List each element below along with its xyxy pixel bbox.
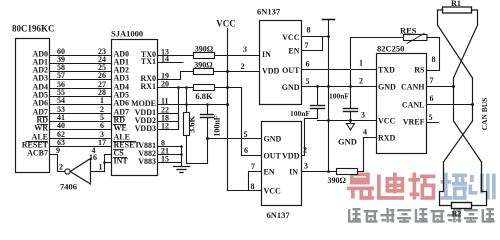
svg-text:VCC: VCC — [216, 19, 236, 29]
wire RESET from 80C196KC to SJA1000 — [50, 146, 112, 148]
wire CS/INT common vertical — [104, 155, 106, 172]
junction VDD wire / VCC rail — [226, 70, 229, 73]
junction CANH/bus — [452, 85, 455, 88]
ground symbol open triangle — [350, 121, 352, 124]
svg-text:26: 26 — [98, 71, 106, 80]
junction INT node — [103, 161, 106, 164]
wire AD1 from 80C196KC to SJA1000 — [50, 63, 112, 65]
svg-text:VCC: VCC — [282, 33, 300, 42]
capacitor C1 100nF top lead — [207, 105, 209, 115]
wire 3.6K bottom U-route to ground node — [187, 136, 208, 164]
svg-text:ACB7: ACB7 — [27, 149, 48, 158]
wire RX0 to resistor R2a — [158, 72, 194, 80]
svg-text:VREF: VREF — [403, 118, 425, 127]
svg-text:100nF: 100nF — [329, 92, 349, 101]
microcontroller U1 80C196KC box — [16, 39, 50, 173]
capacitor C1 100nF bottom lead — [207, 118, 209, 139]
svg-text:VCC: VCC — [264, 187, 282, 196]
resistor R3a 6.8K — [194, 85, 215, 91]
wire TX1 stub — [158, 62, 184, 64]
wire ground net to lower opto GND — [208, 138, 262, 140]
svg-text:390Ω: 390Ω — [328, 176, 347, 185]
resistor R4a 3.6K vertical — [184, 113, 190, 136]
svg-text:6.8K: 6.8K — [195, 91, 213, 101]
wire bus left conductor — [453, 78, 455, 121]
wire RES vertical to GND wire — [350, 38, 352, 87]
wire 82C250 VCC row — [318, 120, 377, 122]
wire U6 EN bracket to VCC — [249, 172, 262, 191]
wire bus twist X1 — [438, 25, 473, 78]
resistor R2a 390ohm — [194, 69, 214, 75]
svg-text:390Ω: 390Ω — [194, 61, 213, 70]
svg-text:CAN BUS: CAN BUS — [480, 98, 489, 131]
capacitor C2 100nF top lead — [317, 87, 319, 106]
wire CANH to bus — [427, 86, 454, 88]
resistor R1 terminator — [443, 7, 472, 13]
svg-text:GND: GND — [282, 83, 300, 92]
svg-text:GND: GND — [264, 135, 282, 144]
wire U4 pin 8 to rail — [302, 36, 329, 38]
svg-text:IN: IN — [262, 50, 271, 59]
svg-text:5: 5 — [306, 77, 310, 86]
junction MODE/VCC rail — [226, 103, 229, 106]
svg-text:7: 7 — [305, 41, 309, 50]
wire CS stub — [105, 154, 112, 156]
CAN transceiver U5 82C250 box — [377, 54, 427, 154]
svg-text:80C196KC: 80C196KC — [12, 24, 55, 34]
capacitor C3 100nF top lead — [350, 87, 352, 109]
capacitor C3 bottom lead — [350, 112, 352, 121]
wire RX1 down to lower opto OUT — [241, 88, 243, 156]
svg-text:6: 6 — [100, 121, 104, 130]
wire VSS2 stub — [158, 154, 182, 156]
resistor R2 terminator — [452, 203, 472, 209]
svg-text:17: 17 — [98, 138, 106, 147]
svg-text:6: 6 — [244, 146, 248, 155]
svg-text:V883: V883 — [138, 157, 156, 166]
svg-text:MODE: MODE — [131, 99, 156, 108]
wire VDD1 stub — [158, 113, 179, 115]
junction MODE/divider — [185, 103, 188, 106]
junction CANL/bus — [471, 103, 474, 106]
svg-text:2: 2 — [241, 62, 245, 71]
svg-text:6: 6 — [430, 94, 434, 103]
svg-text:VDD3: VDD3 — [135, 124, 156, 133]
wire CANL to bus — [427, 104, 473, 106]
svg-text:2: 2 — [303, 146, 307, 155]
junction RX1/VCC rail — [226, 86, 229, 89]
junction VCC row / C3 — [349, 119, 352, 122]
wire bus left conductor lower — [440, 162, 452, 206]
wire U4 GND to 82C250 GND — [302, 86, 377, 88]
junction GND/C2 — [316, 85, 319, 88]
resistor R5 RES slope-control box — [404, 35, 428, 41]
wire VCC rail vertical — [227, 29, 229, 191]
svg-text:3: 3 — [304, 162, 308, 171]
svg-text:RES: RES — [400, 26, 417, 36]
wire lower opto IN to resistor R6 — [302, 171, 337, 173]
ground symbol SJA1000 VSS — [174, 166, 190, 168]
wire AD4 from 80C196KC to SJA1000 — [50, 88, 112, 90]
svg-text:AD3: AD3 — [114, 74, 130, 83]
capacitor C1 100nF plates — [201, 114, 214, 116]
svg-text:AD3: AD3 — [32, 74, 48, 83]
svg-text:OUT: OUT — [264, 152, 282, 161]
wire R1 right lead — [472, 10, 478, 25]
wire R1 left lead — [438, 10, 443, 25]
svg-text:16: 16 — [89, 153, 97, 162]
inverter U2 7406 triangle — [70, 159, 90, 185]
junction RX1/VDD bus — [177, 86, 180, 89]
svg-text:57: 57 — [57, 71, 65, 80]
junction VSS2 — [180, 153, 183, 156]
svg-text:SJA1000: SJA1000 — [111, 29, 143, 39]
svg-text:CANH: CANH — [401, 83, 425, 92]
wire U4 OUT to 82C250 TXD — [302, 69, 377, 71]
wire TX0 to opto IN — [158, 55, 260, 57]
svg-text:AD6: AD6 — [114, 99, 130, 108]
svg-text:7: 7 — [251, 162, 255, 171]
junction VSS1 — [180, 145, 183, 148]
wire AD2 from 80C196KC to SJA1000 — [50, 71, 112, 73]
junction VCC row / rail x328 — [327, 119, 330, 122]
svg-text:2: 2 — [359, 77, 363, 86]
wire ALE from 80C196KC to SJA1000 — [50, 138, 112, 140]
wire VSS1 stub — [158, 146, 182, 148]
wire VSS bus vertical — [181, 147, 183, 167]
svg-text:VDD: VDD — [262, 67, 280, 76]
svg-text:40: 40 — [57, 121, 65, 130]
wire ACB7 from 80C196KC pin 9 to 7406 output — [50, 155, 65, 172]
svg-text:3: 3 — [361, 111, 365, 120]
svg-text:3: 3 — [243, 45, 247, 54]
capacitor C3 100nF plates — [344, 108, 358, 110]
svg-text:5: 5 — [429, 113, 433, 122]
svg-text:RXD: RXD — [378, 134, 396, 143]
svg-text:9: 9 — [56, 146, 60, 155]
wire U4 pin 7 bracket — [302, 37, 323, 51]
svg-text:8: 8 — [307, 26, 311, 35]
resistor R6 390ohm — [337, 169, 358, 175]
svg-text:VCC: VCC — [378, 117, 396, 126]
wire bus right conductor lower — [472, 162, 487, 206]
optocoupler U4 6N137 upper box — [260, 21, 302, 105]
wire RX1 row — [158, 87, 194, 89]
junction GND/RES vertical — [349, 85, 352, 88]
wire VSS3 stub — [158, 162, 182, 164]
wire VDD bus vertical — [178, 88, 180, 130]
svg-text:100nF: 100nF — [213, 115, 222, 136]
wire AD3 from 80C196KC to SJA1000 — [50, 79, 112, 81]
wire long vertical rail x328 — [328, 20, 330, 172]
svg-text:TX1: TX1 — [141, 57, 156, 66]
junction U4 pin 8 — [327, 35, 330, 38]
RES adjustment stroke — [407, 34, 424, 44]
svg-text:4: 4 — [363, 128, 367, 137]
svg-text:82C250: 82C250 — [377, 44, 404, 54]
optocoupler U6 6N137 lower box — [262, 122, 302, 206]
junction C1/3.6K/GND wire — [206, 137, 209, 140]
wire divider vertical — [186, 88, 188, 113]
junction MODE/cap C1 — [206, 103, 209, 106]
svg-text:AD6: AD6 — [32, 99, 48, 108]
capacitor C2 bottom route to lower opto VDD — [302, 109, 318, 156]
wire RS pin loop — [427, 38, 440, 71]
wire bus right conductor — [472, 78, 474, 121]
svg-text:CANL: CANL — [402, 101, 425, 110]
svg-text:390Ω: 390Ω — [195, 45, 214, 54]
svg-text:RX1: RX1 — [140, 82, 156, 91]
wire AD5 from 80C196KC to SJA1000 — [50, 96, 112, 98]
svg-text:GND: GND — [378, 83, 396, 92]
resistor R1a 390ohm — [194, 53, 215, 59]
wire RD from 80C196KC to SJA1000 — [50, 121, 112, 123]
svg-text:3.6K: 3.6K — [187, 116, 197, 134]
wire AD7 from 80C196KC to SJA1000 — [50, 113, 112, 115]
watermark band: red text yidituo peixun — [347, 173, 496, 200]
svg-text:OUT: OUT — [282, 66, 300, 75]
wire WR from 80C196KC to SJA1000 — [50, 129, 112, 131]
inverter U2 output bubble — [65, 169, 70, 174]
junction GND/rail x328 — [327, 85, 330, 88]
svg-text:5: 5 — [244, 130, 248, 139]
svg-text:1: 1 — [99, 163, 103, 172]
wire R6 to 82C250 RXD — [358, 138, 377, 172]
wire RES left lead — [351, 37, 404, 39]
svg-text:7: 7 — [430, 76, 434, 85]
wire R2a to opto VDD — [214, 71, 260, 73]
wire 7406 input — [91, 171, 105, 173]
svg-text:RS: RS — [414, 66, 425, 75]
junction rail x328 / RXD-LED wire — [327, 170, 330, 173]
power tee (opto VCC) — [323, 19, 335, 21]
svg-text:EN: EN — [288, 47, 299, 56]
svg-text:54: 54 — [57, 96, 65, 105]
wire AD6 from 80C196KC to SJA1000 — [50, 104, 112, 106]
svg-text:IN: IN — [289, 168, 298, 177]
svg-text:8: 8 — [432, 55, 436, 64]
svg-text:100nF: 100nF — [290, 109, 310, 118]
wire AD0 from 80C196KC to SJA1000 — [50, 55, 112, 57]
CAN controller U3 SJA1000 box — [112, 40, 158, 176]
svg-text:EN: EN — [264, 168, 275, 177]
svg-text:R2: R2 — [452, 210, 462, 219]
watermark line 2: grey text shepin he tianxian sheji zhuanjia — [348, 208, 495, 223]
wire VDD3 stub — [158, 129, 179, 131]
svg-text:6N137: 6N137 — [257, 7, 281, 17]
wire U6 OUT stub — [242, 155, 262, 157]
svg-text:1: 1 — [100, 96, 104, 105]
svg-text:1: 1 — [359, 59, 363, 68]
wire INT stub — [105, 162, 112, 164]
junction RX1/divider — [185, 86, 188, 89]
svg-text:GND: GND — [338, 137, 357, 147]
svg-text:6: 6 — [306, 60, 310, 69]
svg-text:2: 2 — [59, 163, 63, 172]
svg-text:VDD: VDD — [282, 152, 300, 161]
wire VCC rail to lower opto pin 8 — [228, 190, 262, 192]
svg-text:6N137: 6N137 — [267, 210, 291, 220]
svg-text:TXD: TXD — [378, 66, 395, 75]
svg-text:7406: 7406 — [60, 182, 77, 192]
wire MODE row to VCC rail — [158, 104, 228, 106]
capacitor C2 100nF plates — [311, 105, 325, 107]
svg-text:8: 8 — [251, 182, 255, 191]
wire bus twist X2 — [454, 121, 482, 162]
wire 6.8K to VCC rail and down-wire — [215, 87, 242, 89]
wire VREF stub — [427, 122, 439, 124]
wire VDD2 stub — [158, 121, 179, 123]
